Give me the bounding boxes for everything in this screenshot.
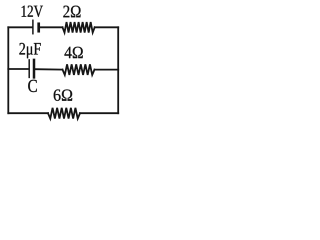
resistor R2 4 ohm zigzag xyxy=(63,64,95,75)
wire left rail xyxy=(7,27,9,113)
capacitor C right thick plate xyxy=(33,60,36,78)
resistor R3 6 ohm zigzag xyxy=(48,108,80,119)
label 2 uF xyxy=(19,43,40,58)
wire right rail xyxy=(117,27,119,113)
wire 4 ohm to right rail junction xyxy=(95,69,119,71)
capacitor C left plate xyxy=(28,60,30,78)
wire top-left corner to battery xyxy=(8,26,32,28)
label C xyxy=(28,80,37,92)
wire 6 ohm to bottom-right corner xyxy=(80,112,118,114)
label 4 ohm xyxy=(64,47,82,58)
label 12V xyxy=(22,6,43,17)
wire battery to 2 ohm resistor xyxy=(40,26,62,28)
wire capacitor to 4 ohm resistor xyxy=(35,68,62,70)
wire bottom-left corner to 6 ohm resistor xyxy=(8,112,48,114)
wire 2 ohm to top-right corner xyxy=(95,26,119,28)
resistor R1 2 ohm zigzag xyxy=(63,22,95,33)
wire middle-left junction to capacitor xyxy=(8,68,28,70)
battery B1 12V short thick plate xyxy=(37,24,40,31)
label 2 ohm xyxy=(63,6,80,18)
label 6 ohm xyxy=(54,89,72,100)
battery B1 12V long plate xyxy=(32,20,34,33)
